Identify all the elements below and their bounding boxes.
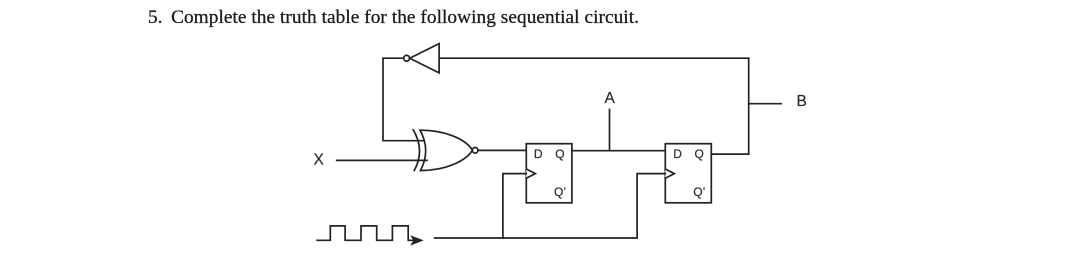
- svg-text:Q’: Q’: [693, 185, 705, 199]
- svg-text:A: A: [605, 90, 616, 107]
- svg-text:B: B: [797, 93, 807, 110]
- svg-text:Q’: Q’: [554, 185, 566, 199]
- svg-text:Q: Q: [555, 147, 564, 161]
- svg-text:X: X: [314, 151, 325, 168]
- svg-text:Q: Q: [695, 147, 704, 161]
- svg-text:D: D: [534, 147, 543, 161]
- svg-text:D: D: [673, 147, 682, 161]
